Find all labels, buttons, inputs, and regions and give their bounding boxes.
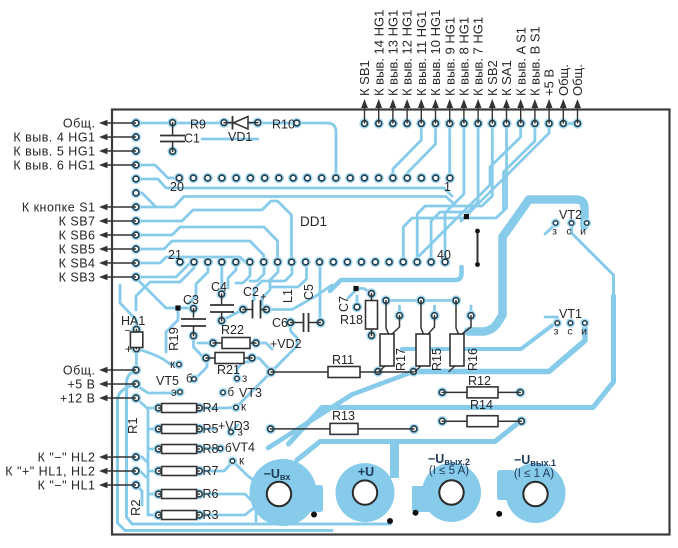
svg-text:40: 40 xyxy=(437,248,451,262)
svg-text:R10: R10 xyxy=(272,118,295,132)
svg-text:+12 В: +12 В xyxy=(60,391,96,405)
svg-text:К выв. 7 HG1: К выв. 7 HG1 xyxy=(471,17,486,96)
svg-text:R9: R9 xyxy=(190,118,206,132)
svg-text:К выв. 11 HG1: К выв. 11 HG1 xyxy=(414,11,429,96)
svg-text:R17: R17 xyxy=(394,348,408,371)
svg-text:+5 В: +5 В xyxy=(67,377,95,391)
svg-text:DD1: DD1 xyxy=(300,214,327,229)
svg-text:−: − xyxy=(125,325,131,337)
svg-text:К выв. 9 HG1: К выв. 9 HG1 xyxy=(442,17,457,96)
svg-text:R16: R16 xyxy=(466,348,480,371)
svg-text:К SB3: К SB3 xyxy=(59,270,96,284)
svg-text:э: э xyxy=(171,387,177,399)
svg-text:+5 В: +5 В xyxy=(542,69,557,96)
svg-text:Общ.: Общ. xyxy=(63,363,96,377)
svg-text:C1: C1 xyxy=(184,132,200,146)
svg-text:К SB6: К SB6 xyxy=(59,228,96,242)
svg-text:К выв. 14 HG1: К выв. 14 HG1 xyxy=(371,10,386,96)
svg-text:+: + xyxy=(125,342,132,356)
svg-text:+VD2: +VD2 xyxy=(270,337,302,351)
svg-text:б: б xyxy=(228,387,235,399)
svg-text:R12: R12 xyxy=(468,374,491,388)
svg-text:C2: C2 xyxy=(243,285,259,299)
svg-text:Общ.: Общ. xyxy=(570,64,585,96)
svg-text:VT3: VT3 xyxy=(239,386,262,400)
svg-text:Общ.: Общ. xyxy=(63,116,96,130)
svg-text:+U: +U xyxy=(358,465,374,479)
svg-text:К выв. 10 HG1: К выв. 10 HG1 xyxy=(428,10,443,96)
svg-text:з: з xyxy=(242,373,247,385)
svg-text:К "−" HL2: К "−" HL2 xyxy=(38,450,96,464)
svg-text:(I ≤ 1 A): (I ≤ 1 A) xyxy=(514,468,554,480)
svg-text:К SB2: К SB2 xyxy=(485,60,500,96)
svg-text:C6: C6 xyxy=(272,316,288,330)
svg-text:К выв. 12 HG1: К выв. 12 HG1 xyxy=(400,10,415,96)
svg-text:R19: R19 xyxy=(166,327,181,351)
svg-text:+VD3: +VD3 xyxy=(218,419,250,433)
svg-text:R7: R7 xyxy=(203,464,219,478)
svg-text:(I ≤ 5 A): (I ≤ 5 A) xyxy=(429,465,469,477)
svg-text:с: с xyxy=(566,226,571,238)
svg-text:с: с xyxy=(567,326,572,338)
svg-text:R14: R14 xyxy=(470,398,493,412)
svg-text:R4: R4 xyxy=(203,401,219,415)
svg-text:К выв. A S1: К выв. A S1 xyxy=(513,27,528,96)
svg-text:К SB7: К SB7 xyxy=(59,214,96,228)
svg-text:R22: R22 xyxy=(221,323,244,337)
svg-text:К SB4: К SB4 xyxy=(59,256,96,270)
svg-text:з: з xyxy=(238,427,243,439)
svg-text:R11: R11 xyxy=(332,353,354,367)
svg-text:К SB5: К SB5 xyxy=(59,242,96,256)
svg-text:C7: C7 xyxy=(337,296,351,312)
svg-text:К кнопке S1: К кнопке S1 xyxy=(22,200,96,214)
svg-text:VT2: VT2 xyxy=(559,208,582,222)
svg-text:К выв. 5 HG1: К выв. 5 HG1 xyxy=(13,144,95,158)
svg-text:VT4: VT4 xyxy=(232,441,255,455)
svg-text:R2: R2 xyxy=(128,499,143,516)
svg-text:+: + xyxy=(260,292,266,304)
svg-text:з: з xyxy=(552,226,557,238)
svg-text:Общ.: Общ. xyxy=(556,64,571,96)
svg-text:К SB1: К SB1 xyxy=(357,60,372,96)
svg-text:и: и xyxy=(580,226,586,238)
svg-text:VD1: VD1 xyxy=(228,130,252,144)
svg-text:R15: R15 xyxy=(430,348,444,371)
svg-text:C3: C3 xyxy=(183,293,199,307)
svg-text:К SA1: К SA1 xyxy=(499,60,514,96)
svg-text:R1: R1 xyxy=(125,417,140,434)
svg-text:К выв. 13 HG1: К выв. 13 HG1 xyxy=(386,10,401,96)
svg-text:К выв. 4 HG1: К выв. 4 HG1 xyxy=(13,130,95,144)
svg-text:R18: R18 xyxy=(340,313,363,327)
svg-text:з: з xyxy=(554,326,559,338)
svg-text:б: б xyxy=(225,443,232,455)
svg-text:R21: R21 xyxy=(217,363,240,377)
svg-text:21: 21 xyxy=(168,248,182,262)
svg-text:C5: C5 xyxy=(302,284,316,300)
svg-text:1: 1 xyxy=(444,180,451,194)
svg-text:К выв. B S1: К выв. B S1 xyxy=(528,26,543,96)
svg-text:К выв. 8 HG1: К выв. 8 HG1 xyxy=(457,17,472,96)
svg-text:К "−" HL1: К "−" HL1 xyxy=(38,478,96,492)
svg-text:L1: L1 xyxy=(281,289,295,303)
svg-text:R3: R3 xyxy=(203,508,219,522)
svg-text:20: 20 xyxy=(170,180,184,194)
svg-text:К выв. 6 HG1: К выв. 6 HG1 xyxy=(13,158,95,172)
svg-text:и: и xyxy=(581,326,587,338)
svg-text:VT5: VT5 xyxy=(156,374,179,388)
svg-text:R5: R5 xyxy=(203,422,219,436)
svg-text:C4: C4 xyxy=(211,280,227,294)
svg-text:R13: R13 xyxy=(332,409,355,423)
svg-text:б: б xyxy=(186,374,193,386)
svg-text:К "+" HL1, HL2: К "+" HL1, HL2 xyxy=(5,464,95,478)
svg-text:R6: R6 xyxy=(203,487,219,501)
svg-text:R8: R8 xyxy=(203,442,219,456)
svg-text:VT1: VT1 xyxy=(559,307,582,321)
